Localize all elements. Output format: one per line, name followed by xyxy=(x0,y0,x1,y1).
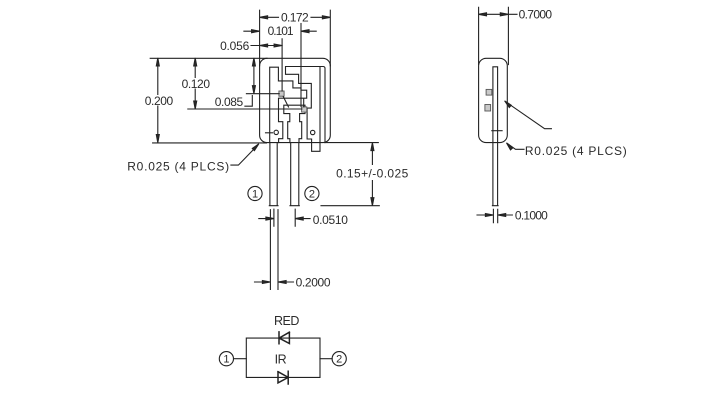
leader 0.085 xyxy=(245,96,252,107)
ext line 0.120 bottom (to die2) xyxy=(188,108,302,110)
svg-text:0.1000: 0.1000 xyxy=(515,208,548,222)
svg-text:0.120: 0.120 xyxy=(182,77,211,91)
side lead xyxy=(492,67,498,206)
circle label 1 (front) xyxy=(248,186,262,200)
dim 0.1000 arrows xyxy=(477,214,512,216)
lead 1 below package xyxy=(269,143,278,206)
dim 0.085 xyxy=(253,66,255,86)
svg-text:RED: RED xyxy=(274,314,299,328)
svg-text:1: 1 xyxy=(252,189,258,201)
terminal 1 circle xyxy=(219,352,233,366)
svg-text:0.15+/-0.025: 0.15+/-0.025 xyxy=(336,167,409,181)
dim 0.2000 arrows xyxy=(255,281,294,283)
side package pill xyxy=(479,58,508,142)
dim 0.120 xyxy=(194,66,196,102)
svg-text:R0.025 (4 PLCS): R0.025 (4 PLCS) xyxy=(525,144,628,158)
top ext line shared xyxy=(150,57,267,59)
diode IR (pointing right) xyxy=(278,371,288,384)
ext line 0.101 (to die2) xyxy=(300,24,302,107)
die pad 1 (red die) xyxy=(279,91,284,96)
svg-text:0.172: 0.172 xyxy=(281,11,309,25)
svg-text:0.7000: 0.7000 xyxy=(519,8,553,22)
bond wire die1 to lead2 bar xyxy=(283,97,288,107)
long lead (untrimmed) below break xyxy=(270,210,278,290)
svg-text:2: 2 xyxy=(336,354,342,366)
leader R0.025 left xyxy=(231,150,254,166)
svg-text:0.056: 0.056 xyxy=(220,39,250,53)
dim 0.7000 xyxy=(487,13,518,15)
dim 0.172 xyxy=(268,16,323,18)
svg-text:0.2000: 0.2000 xyxy=(296,275,331,289)
ext line package right above xyxy=(329,10,331,66)
wire box to term2 xyxy=(320,358,332,360)
bottom ext line 0.200 xyxy=(153,142,267,144)
die pad 2 (IR die) xyxy=(302,107,307,112)
side die square 1 xyxy=(486,89,492,95)
ext lines 0.15 dim xyxy=(321,143,379,206)
svg-text:0.085: 0.085 xyxy=(215,95,244,109)
dim 0.056 leader+arrows xyxy=(251,45,282,47)
polarity + tick on lead 1 xyxy=(266,132,273,134)
anode lead frame (top band, right band, tab) xyxy=(286,67,321,152)
dim 0.15+/-0.025 xyxy=(371,151,373,198)
schematic box wires xyxy=(246,338,320,377)
svg-text:2: 2 xyxy=(309,189,315,201)
svg-text:1: 1 xyxy=(223,354,229,366)
package outline (front view) xyxy=(260,58,331,142)
ext lines 0.1000 xyxy=(493,209,497,222)
ext lines 0.0510 xyxy=(274,209,295,226)
lead 2 T-bar and stem inside package xyxy=(284,105,305,142)
ext line package left above xyxy=(259,10,261,66)
dim 0.101 arrows xyxy=(244,30,316,32)
svg-text:0.200: 0.200 xyxy=(145,94,174,108)
ext lines 0.7000 xyxy=(479,7,509,64)
dim 0.0510 arrows xyxy=(259,218,310,220)
svg-text:0.0510: 0.0510 xyxy=(313,213,349,227)
package inner wall line right side xyxy=(320,67,325,143)
ext line 0.085 bottom (to die1) xyxy=(246,93,279,95)
ext line 0.056 (to die1) xyxy=(281,39,283,91)
circle label 2 (front) xyxy=(305,186,319,200)
leader R0.025 right xyxy=(508,144,524,149)
hole in anode flange xyxy=(311,130,315,134)
diode RED (pointing left) xyxy=(279,332,289,344)
hole tick on side lead xyxy=(492,130,502,132)
bond wire die2 up to lead1 bump xyxy=(303,99,305,107)
svg-text:0.101: 0.101 xyxy=(268,24,294,38)
lead 2 below package xyxy=(290,143,299,206)
dim 0.200 xyxy=(157,66,159,135)
side die square 2 xyxy=(485,105,491,112)
hole in lead 1 xyxy=(274,130,278,134)
lead 1 frame inside package (with die-1 pad bump) xyxy=(270,67,307,142)
svg-text:R0.025 (4 PLCS): R0.025 (4 PLCS) xyxy=(127,160,230,174)
wire term1 to box xyxy=(234,358,247,360)
terminal 2 circle xyxy=(332,352,346,366)
svg-text:IR: IR xyxy=(275,352,287,366)
bare leader to side lead xyxy=(506,102,551,129)
